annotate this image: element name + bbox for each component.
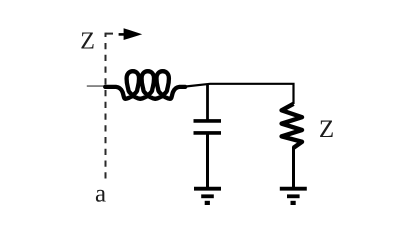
svg-text:Z: Z xyxy=(80,29,95,55)
svg-text:Z: Z xyxy=(319,116,334,143)
svg-text:a: a xyxy=(95,181,106,208)
